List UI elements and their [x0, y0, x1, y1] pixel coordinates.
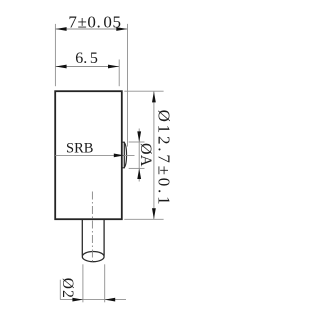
dimension Ø2: left arrow (points right)	[72, 298, 83, 302]
dimension Ø12.7±0.1: top arrow (points up)	[152, 92, 156, 103]
SRB leader line	[55, 154, 134, 156]
dimension 6.5: right arrow	[108, 65, 119, 69]
dimension Ø12.7±0.1: dimension line	[153, 91, 155, 219]
dimension Ø12.7±0.1: bottom arrow (points down)	[152, 208, 156, 219]
dimension 6.5: extension line right	[118, 60, 120, 87]
body outline rectangle	[55, 91, 122, 219]
dimension 6.5: dimension line	[55, 66, 119, 68]
svg-text:7±0. 05: 7±0. 05	[68, 13, 121, 32]
lead tube right wall	[103, 220, 105, 256]
dimension 7±0.05: extension line left	[54, 24, 56, 86]
dimension Ø2: text tail vertical	[59, 280, 61, 300]
dimension ØA: extension line top	[129, 141, 145, 143]
dimension 7±0.05: left arrow	[56, 27, 67, 31]
svg-text:SRB: SRB	[66, 141, 93, 157]
dimension Ø12.7±0.1: extension line top	[124, 90, 163, 92]
dimension ØA: extension line bottom	[129, 167, 145, 169]
dimension Ø2: dimension line	[60, 299, 126, 301]
dimension Ø2: right arrow (points left)	[105, 298, 116, 302]
dimension ØA: dimension line	[138, 129, 140, 182]
tab (side protrusion)	[122, 142, 127, 168]
svg-text:6. 5: 6. 5	[75, 50, 98, 67]
dimension 6.5: left arrow	[56, 65, 67, 69]
lead tube left wall	[81, 220, 83, 256]
dimension Ø2: extension line left	[82, 264, 84, 302]
dimension Ø12.7±0.1: extension line bottom	[124, 218, 163, 220]
dimension ØA: top arrow (points down)	[137, 131, 141, 142]
svg-text:Ø2: Ø2	[59, 278, 76, 299]
SRB leader arrow	[114, 154, 124, 158]
dimension ØA: bottom arrow (points up)	[137, 168, 141, 179]
svg-text:ØA: ØA	[137, 143, 154, 167]
dimension Ø2: extension line right	[104, 264, 106, 302]
dimension 7±0.05: extension line right	[127, 24, 129, 147]
centerline (dash-dot)	[91, 192, 93, 264]
dimension 7±0.05: right arrow	[116, 27, 127, 31]
lead tube end ellipse	[82, 252, 104, 262]
dimension 7±0.05: dimension line	[55, 28, 127, 30]
svg-text:Ø12.7±0.1: Ø12.7±0.1	[155, 110, 174, 208]
